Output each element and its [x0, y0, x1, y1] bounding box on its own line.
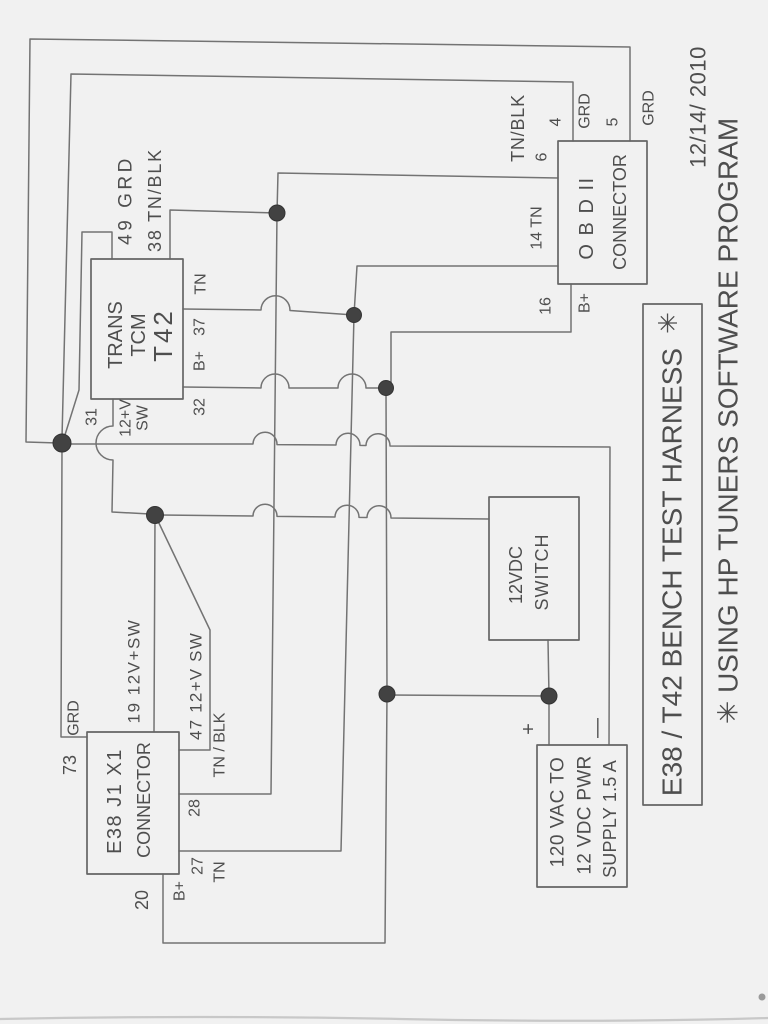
wire 12V+SW: TCM pin 31 down with crossover bulge [96, 399, 150, 514]
svg-text:37: 37 [192, 318, 209, 336]
svg-text:16: 16 [538, 297, 555, 315]
svg-text:TCM: TCM [128, 313, 150, 356]
svg-text:E38 J1 X1: E38 J1 X1 [104, 748, 126, 854]
svg-text:49 GRD: 49 GRD [116, 155, 137, 245]
svg-text:TN/BLK: TN/BLK [508, 94, 528, 162]
wire GRD: node A down to E38 pin 73 [61, 447, 87, 737]
svg-text:6: 6 [534, 152, 551, 161]
wire GRD horizontal from node A to PWR minus [66, 432, 610, 745]
svg-text:5: 5 [605, 117, 622, 126]
wire B+: node D5 down to PWR plus [548, 696, 550, 745]
svg-text:12 VDC PWR: 12 VDC PWR [575, 755, 596, 874]
wire B+: node D3 to OBD pin 16 [387, 284, 571, 388]
E38 connector box [87, 732, 179, 874]
wire 12V+SW: node B diagonal to E38 pin 47 [157, 519, 210, 750]
svg-text:TN: TN [212, 861, 229, 882]
wire GRD inner loop (OBD pin 4 to node A) [62, 74, 573, 438]
svg-text:CONNECTOR: CONNECTOR [134, 742, 154, 858]
wire B+: TCM pin 32 to node D3 [183, 374, 387, 388]
svg-text:—: — [586, 718, 608, 738]
junction node D3 [379, 381, 394, 396]
svg-text:47 12+V SW: 47 12+V SW [187, 632, 206, 740]
junction node D5 [541, 688, 557, 704]
OBD II connector box [558, 141, 647, 284]
svg-text:12VDC: 12VDC [506, 546, 526, 604]
wire B+: node D4 loop to E38 pin 20 [163, 694, 387, 943]
svg-text:SW: SW [135, 404, 152, 431]
svg-text:TN: TN [193, 273, 210, 294]
junction node D2 [347, 308, 362, 323]
svg-text:4: 4 [548, 117, 565, 126]
wire TCM pin 49 GRD to node A [64, 232, 112, 438]
120VAC power supply box [537, 745, 627, 887]
svg-text:38 TN/BLK: 38 TN/BLK [145, 148, 165, 252]
junction node D4 [379, 686, 395, 702]
wire B+: node D4 to node D5 [387, 695, 549, 696]
svg-text:O B D II: O B D II [576, 176, 598, 259]
svg-text:✳ USING HP TUNERS SOFTWARE: ✳ USING HP TUNERS SOFTWARE PROGRAM [713, 118, 744, 724]
wire TN/BLK: node D1 down to E38 pin 28 [179, 213, 277, 794]
svg-text:27: 27 [190, 857, 207, 875]
svg-text:+: + [518, 723, 540, 735]
junction node B [147, 507, 164, 524]
svg-text:T42: T42 [148, 308, 178, 362]
scanner speck [759, 994, 766, 1001]
svg-text:19 12V+SW: 19 12V+SW [125, 619, 144, 724]
svg-text:SUPPLY 1.5 A: SUPPLY 1.5 A [600, 760, 620, 878]
12VDC switch box [489, 497, 579, 640]
svg-text:E38 / T42 BENCH TEST HARNESS: E38 / T42 BENCH TEST HARNESS [657, 348, 688, 796]
svg-text:B+: B+ [192, 351, 209, 371]
wire TN/BLK: TCM pin 38 up to node D1 [170, 210, 277, 259]
svg-text:SWITCH: SWITCH [532, 534, 552, 611]
svg-text:GRD: GRD [66, 700, 83, 736]
svg-text:B+: B+ [172, 881, 189, 901]
svg-text:TN / BLK: TN / BLK [212, 712, 229, 777]
svg-text:B+: B+ [577, 293, 594, 313]
wire TN: node D2 up to OBD pin 14 [354, 266, 558, 315]
svg-text:GRD: GRD [641, 90, 658, 126]
wire 12V+SW: node B down to E38 pin 19 [154, 516, 155, 732]
svg-text:28: 28 [187, 799, 204, 817]
svg-text:14 TN: 14 TN [529, 206, 546, 249]
wire TN: TCM pin 37 to node D2 [183, 296, 354, 315]
junction node A [53, 434, 71, 452]
svg-text:GRD: GRD [577, 93, 594, 129]
wire GRD outer loop (OBD pin 5 to node A) [26, 39, 630, 443]
svg-text:12/14/ 2010: 12/14/ 2010 [686, 46, 711, 168]
svg-text:120 VAC TO: 120 VAC TO [548, 757, 569, 868]
wire TN/BLK: node D1 to OBD pin 6 [277, 173, 558, 213]
wire TN: node D2 down to E38 pin 27 [179, 315, 354, 851]
svg-text:32: 32 [192, 398, 209, 416]
svg-text:12+V: 12+V [118, 399, 135, 437]
wire B+: node D3 down to node D4 [386, 390, 387, 694]
wire B+: switch bottom to node D5 [548, 640, 549, 696]
svg-text:73: 73 [60, 755, 80, 775]
svg-text:31: 31 [84, 408, 101, 426]
svg-text:✳: ✳ [653, 312, 683, 334]
scanner bottom edge shadow [0, 1017, 768, 1021]
svg-text:20: 20 [132, 890, 152, 910]
TCM T42 module box [91, 259, 183, 399]
svg-text:TRANS: TRANS [105, 301, 127, 369]
junction node D1 [269, 205, 285, 221]
wire 12V+SW: node B to 12VDC switch [160, 504, 489, 519]
title box E38/T42 bench test harness [643, 304, 702, 805]
svg-text:CONNECTOR: CONNECTOR [610, 154, 630, 270]
